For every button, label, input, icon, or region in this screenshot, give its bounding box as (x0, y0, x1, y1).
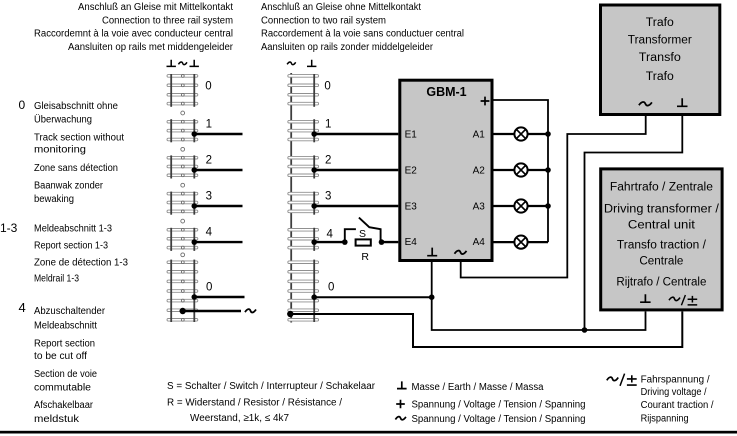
svg-text:Courant traction /: Courant traction / (641, 400, 714, 411)
AC/DC symbol: driving voltage legend (607, 374, 637, 386)
insulator gap 2 (three-rail centre conductor) (181, 147, 185, 151)
svg-text:Track section without: Track section without (34, 132, 124, 143)
svg-text:Fahrspannung /: Fahrspannung / (641, 375, 710, 386)
svg-text:S: S (359, 228, 366, 240)
svg-text:Rijtrafo / Centrale: Rijtrafo / Centrale (616, 277, 706, 289)
wire: three-rail section 1 tap stub (194, 133, 242, 135)
AC symbol: GBM supply pin (455, 251, 467, 254)
svg-text:0: 0 (205, 80, 211, 92)
svg-text:A1: A1 (473, 130, 486, 141)
three-rail track section 3 (167, 192, 198, 215)
transformer (accessory trafo) (601, 5, 720, 115)
junction: two-rail tap 3 (311, 203, 317, 209)
AC symbol: two-rail left rail (drive) (287, 62, 296, 65)
svg-text:Spannung / Voltage / Tension /: Spannung / Voltage / Tension / Spanning (412, 400, 586, 411)
junction: + bus at A3 (545, 203, 551, 209)
two-rail common left rail (continuous) (290, 73, 292, 323)
ground symbol: GBM earth pin (427, 248, 437, 256)
junction: rail-0 joins earth bus (429, 294, 435, 300)
junction: three-rail tap 3 (192, 203, 198, 209)
AC symbol: three-rail centre conductor (178, 62, 187, 65)
svg-text:Meldeabschnitt 1-3: Meldeabschnitt 1-3 (34, 224, 112, 235)
svg-text:0: 0 (19, 98, 26, 112)
three-rail track section 2 (167, 155, 198, 178)
pin + (lamp supply) (481, 97, 490, 106)
svg-text:1: 1 (206, 119, 212, 131)
node label: three-rail header text (34, 2, 234, 53)
svg-text:Centrale: Centrale (639, 256, 683, 268)
svg-text:commutable: commutable (34, 383, 91, 394)
svg-text:monitoring: monitoring (34, 144, 86, 155)
three-rail track section 1 (167, 119, 198, 142)
svg-text:Abzuschaltender: Abzuschaltender (34, 306, 106, 317)
three-rail track section 0 (bottom, unmonitored) (167, 260, 198, 322)
svg-text:Aansluiten op rails met midden: Aansluiten op rails met middengeleider (68, 42, 234, 53)
wire: three-rail section 4 tap stub (194, 241, 242, 243)
node label: 1-3 report sections (0, 221, 128, 285)
two-rail track section 0 (bottom) (288, 260, 319, 322)
wire: two-rail section 1 to E1 (314, 133, 398, 135)
two-rail track section 1 (288, 119, 319, 142)
svg-text:Connection to three rail syste: Connection to three rail system (102, 15, 233, 26)
svg-text:0: 0 (206, 281, 212, 293)
node label: 0 unmonitored section (19, 98, 125, 205)
svg-text:Report section 1-3: Report section 1-3 (34, 241, 108, 252)
svg-text:Fahrtrafo / Zentrale: Fahrtrafo / Zentrale (610, 182, 713, 194)
svg-text:Rijspanning: Rijspanning (641, 414, 689, 425)
svg-text:Baanwak zonder: Baanwak zonder (34, 180, 104, 191)
svg-text:1-3: 1-3 (0, 221, 18, 235)
svg-text:Transfo traction /: Transfo traction / (617, 240, 707, 252)
wire: lamp L1 to + bus (528, 133, 549, 135)
junction: two-rail tap 4 (311, 239, 317, 245)
ground symbol: three-rail right outer rail (190, 60, 199, 67)
svg-text:R = Widerstand / Resistor / Ré: R = Widerstand / Resistor / Résistance / (167, 398, 342, 409)
wire: three-rail section 2 tap stub (194, 169, 242, 171)
svg-text:Section de voie: Section de voie (34, 369, 97, 380)
node label: 4 switchable report section (19, 300, 106, 425)
lamp L1 (514, 127, 527, 140)
insulator gap 5 (three-rail centre conductor) (181, 253, 185, 257)
svg-text:Driving transformer /: Driving transformer / (604, 203, 720, 215)
wire: two-rail rail-0 to GBM earth (314, 296, 432, 298)
junction: three-rail tap 2 (192, 167, 198, 173)
svg-text:R: R (361, 251, 369, 263)
lamp L2 (514, 163, 527, 176)
svg-text:3: 3 (206, 191, 212, 203)
AC/DC symbol: driving voltage terminal (669, 295, 697, 305)
svg-text:Zone sans détection: Zone sans détection (34, 163, 118, 174)
value label: driving voltage legend (641, 375, 714, 425)
wire: two-rail section 4 tap to switch/resistor (314, 241, 345, 243)
wire: two-rail section 3 to E3 (314, 205, 398, 207)
svg-text:bewaking: bewaking (34, 194, 74, 205)
wire: three-rail rail-0 tap stub (194, 296, 244, 298)
junction: S/R right node (379, 239, 385, 245)
svg-text:2: 2 (325, 155, 331, 167)
svg-text:E4: E4 (405, 237, 418, 248)
junction: two-rail tap 2 (311, 167, 317, 173)
AC symbol: trafo ~ terminal (639, 102, 652, 106)
svg-text:Zone de détection 1-3: Zone de détection 1-3 (34, 257, 128, 268)
bottom frame line (0, 431, 737, 434)
two-rail track section 4 (288, 228, 319, 251)
svg-text:A2: A2 (473, 166, 486, 177)
svg-text:4: 4 (19, 300, 26, 315)
insulator gap 3 (three-rail centre conductor) (181, 183, 185, 187)
insulator gap 1 (three-rail centre conductor) (181, 111, 185, 115)
plus symbol: legend + (396, 400, 405, 409)
three-rail track section 4 (167, 228, 198, 251)
junction: two-rail tap 1 (311, 131, 317, 137)
svg-text:A4: A4 (473, 237, 486, 248)
wire: A1 to lamp L1 (494, 133, 515, 135)
svg-text:Spannung / Voltage / Tension /: Spannung / Voltage / Tension / Spanning (412, 414, 586, 425)
svg-text:Transformer: Transformer (628, 35, 692, 47)
svg-text:Überwachung: Überwachung (34, 113, 92, 125)
svg-text:Trafo: Trafo (646, 17, 674, 29)
svg-text:E1: E1 (405, 130, 418, 141)
resistor R (lower branch) (356, 239, 371, 245)
svg-text:4: 4 (206, 227, 213, 239)
wire: A2 to lamp L2 (494, 169, 515, 171)
svg-text:Connection to two rail system: Connection to two rail system (261, 15, 386, 26)
wire: three-rail section 3 tap stub (194, 205, 242, 207)
junction: three-rail tap 4 (192, 239, 198, 245)
two-rail track section 0 (top) (288, 74, 319, 107)
junction: trafo earth joins earth bus (582, 327, 588, 333)
junction: three-rail tap 1 (192, 131, 198, 137)
svg-text:meldstuk: meldstuk (34, 414, 80, 425)
ground symbol: three-rail left outer rail (167, 60, 176, 67)
ground symbol: driving trafo earth terminal (640, 294, 651, 302)
svg-text:Trafo: Trafo (646, 71, 674, 83)
lamp L3 (514, 199, 527, 212)
svg-text:Afschakelbaar: Afschakelbaar (34, 400, 94, 411)
wire: + pin to lamp bus (494, 100, 549, 242)
insulator gap 4 (three-rail centre conductor) (181, 219, 185, 223)
svg-text:Anschluß an Gleise mit Mittelk: Anschluß an Gleise mit Mittelkontakt (78, 2, 233, 13)
ground symbol: trafo earth terminal (677, 98, 688, 106)
wire: S/R to E4 (382, 241, 399, 243)
svg-text:Gleisabschnitt ohne: Gleisabschnitt ohne (34, 101, 118, 112)
AC symbol: legend ~ (395, 417, 406, 420)
svg-text:1: 1 (325, 119, 331, 131)
wire: lamp L2 to + bus (528, 169, 549, 171)
wire: three-rail centre-conductor tap stub (183, 310, 241, 312)
junction: S/R left node (342, 239, 348, 245)
node label: two-rail header text (261, 2, 464, 53)
junction: three-rail rail-0 tap (192, 294, 198, 300)
svg-text:S = Schalter / Switch / Interr: S = Schalter / Switch / Interrupteur / S… (167, 381, 376, 392)
svg-text:to be cut off: to be cut off (34, 351, 87, 362)
lamp L4 (514, 236, 527, 249)
svg-text:3: 3 (325, 191, 331, 203)
svg-text:Driving voltage /: Driving voltage / (641, 387, 707, 398)
two-rail track section 2 (288, 155, 319, 178)
two-rail track section 3 (288, 192, 319, 215)
svg-text:Anschluß an Gleise ohne Mittel: Anschluß an Gleise ohne Mittelkontakt (261, 2, 421, 13)
svg-text:Masse / Earth / Masse / Massa: Masse / Earth / Masse / Massa (412, 382, 544, 393)
svg-text:Meldrail 1-3: Meldrail 1-3 (34, 274, 79, 285)
svg-text:0: 0 (328, 282, 334, 294)
svg-text:E3: E3 (405, 202, 418, 213)
svg-text:Meldeabschnitt: Meldeabschnitt (34, 321, 97, 332)
wire: trafo ~ to GBM ~ pin (461, 116, 646, 278)
wire: lamp L4 to + bus (528, 241, 549, 243)
svg-text:Report section: Report section (34, 338, 95, 349)
junction: two-rail rail-0 tap (311, 294, 317, 300)
wire: GBM earth pin to driving transformer earth (432, 262, 646, 330)
wire: A3 to lamp L3 (494, 205, 515, 207)
svg-text:E2: E2 (405, 166, 418, 177)
switch S (upper branch) (345, 218, 381, 243)
svg-text:Transfo: Transfo (639, 52, 681, 64)
wire: two-rail section 2 to E2 (314, 169, 398, 171)
svg-text:Weerstand, ≥1k, ≤ 4k7: Weerstand, ≥1k, ≤ 4k7 (190, 413, 289, 424)
ground symbol: two-rail right rail (307, 60, 316, 67)
junction: two-rail left-rail tap (287, 311, 293, 317)
junction: + bus at A1 (545, 131, 551, 137)
ground symbol: legend earth (397, 381, 407, 388)
svg-text:4: 4 (327, 229, 334, 241)
svg-text:2: 2 (206, 155, 212, 167)
junction: + bus at A2 (545, 167, 551, 173)
three-rail track section 0 (top, unmonitored) (167, 74, 198, 107)
driving transformer / central unit (601, 169, 722, 310)
AC symbol: centre conductor feed label (245, 309, 256, 312)
wire: two-rail left rail to driving transformer (290, 312, 682, 348)
wire: A4 to lamp L4 (494, 241, 515, 243)
junction: three-rail centre-conductor tap (180, 308, 186, 314)
wire: trafo earth to earth bus (585, 116, 683, 330)
svg-text:GBM-1: GBM-1 (426, 85, 466, 99)
svg-text:Raccordemnt à la voie avec con: Raccordemnt à la voie avec conducteur ce… (34, 29, 233, 40)
svg-text:0: 0 (324, 80, 330, 92)
GBM-1 module (400, 80, 492, 260)
svg-text:Raccordement à la voie sans co: Raccordement à la voie sans conductuer c… (261, 29, 464, 40)
svg-text:Aansluiten op rails zonder mid: Aansluiten op rails zonder middelgeleide… (261, 42, 434, 53)
wire: lamp L3 to + bus (528, 205, 549, 207)
svg-text:Central unit: Central unit (628, 219, 696, 231)
svg-text:A3: A3 (473, 202, 486, 213)
